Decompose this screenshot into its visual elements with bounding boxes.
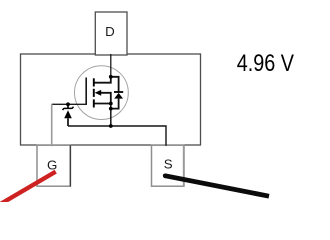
black probe rounded tail [163,173,168,178]
svg-text:S: S [164,156,173,171]
wire D pin to drain [110,54,112,77]
junction diode anode node [109,107,113,111]
body diode D1 anode lead [111,99,119,109]
channel bar drain segment [93,78,95,86]
zener Z1 triangle [64,110,72,118]
package body SOT-23 outline [21,54,201,145]
zener Z1 cathode lead [67,104,69,108]
wire gate lead [52,103,86,105]
channel bar body segment [93,89,95,97]
body diode D1 cathode bar [114,91,123,93]
transistor circle U1 [75,66,129,120]
pin box S thick right edge [183,145,185,186]
pin box G dark right edge [69,145,71,186]
gate bar [85,78,87,105]
pin box D [95,12,127,55]
junction rail node [109,124,113,128]
zener Z1 anode lead [67,118,69,126]
red probe on G [0,172,56,207]
junction source stub node [109,102,113,106]
channel bar source segment [93,99,95,107]
body diode D1 cathode lead [111,77,119,92]
junction gate zener node [66,102,70,106]
svg-text:4.96 V: 4.96 V [237,49,295,76]
junction drain node [109,75,113,79]
wire drain stub [94,77,111,83]
pin box S [152,145,184,186]
svg-text:D: D [105,24,115,39]
wire source down to rail [110,104,112,127]
wire body stub [101,93,111,104]
zener Z1 cathode bar with tails [63,107,74,110]
body arrow (N-channel) [95,90,102,96]
pin box G [37,145,70,186]
body diode D1 triangle [114,93,123,99]
wire gate to G pin (gray) [51,104,53,146]
wire source stub [94,103,111,105]
wire source rail to S pin [68,126,166,146]
svg-text:G: G [47,157,57,172]
black probe on S [165,176,269,197]
